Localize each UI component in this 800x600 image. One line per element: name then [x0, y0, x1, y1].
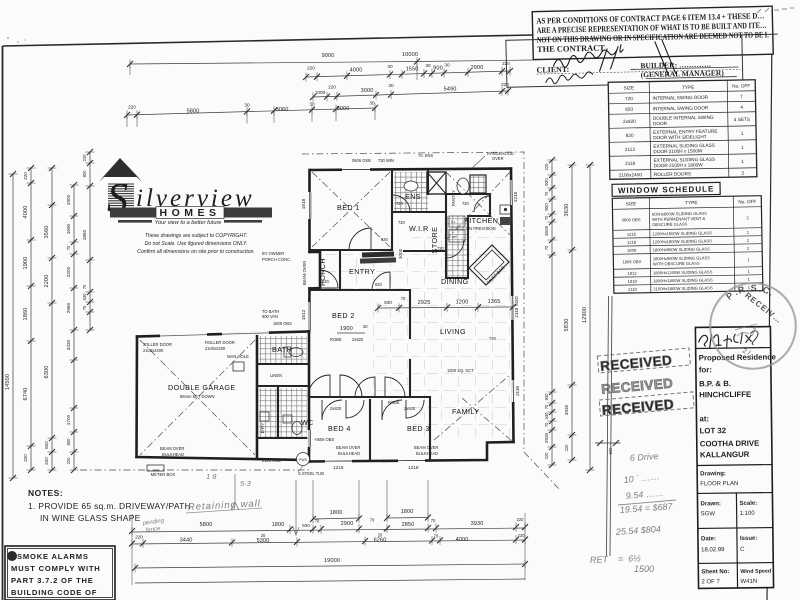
- svg-text:220: 220: [23, 172, 28, 180]
- svg-text:6 Drive: 6 Drive: [629, 451, 658, 463]
- svg-text:These drawings are subject to: These drawings are subject to COPYRIGHT.: [145, 233, 247, 239]
- svg-text:5830: 5830: [564, 319, 570, 332]
- svg-text:IN WINE GLASS SHAPE: IN WINE GLASS SHAPE: [40, 513, 141, 523]
- svg-text:KALLANGUR: KALLANGUR: [700, 450, 750, 460]
- svg-text:PORCH CONC.: PORCH CONC.: [262, 257, 291, 262]
- svg-text:720: 720: [489, 336, 497, 341]
- svg-text:2118: 2118: [515, 386, 520, 396]
- svg-text:930: 930: [302, 523, 310, 528]
- svg-text:BUILDING CODE OF: BUILDING CODE OF: [11, 588, 97, 597]
- svg-text:19000: 19000: [324, 558, 340, 564]
- svg-text:BULKHEAD: BULKHEAD: [338, 451, 360, 456]
- svg-text:30: 30: [388, 83, 394, 88]
- svg-text:1:100: 1:100: [740, 511, 756, 517]
- svg-text:5300: 5300: [257, 538, 270, 544]
- svg-text:DOOR: DOOR: [653, 121, 668, 126]
- svg-text:70. ENS: 70. ENS: [418, 153, 434, 158]
- svg-text:1900: 1900: [66, 194, 71, 205]
- svg-text:BULKHEAD: BULKHEAD: [416, 451, 438, 456]
- svg-text:NOTES:: NOTES:: [28, 488, 63, 498]
- svg-text:PART 3.7.2 OF THE: PART 3.7.2 OF THE: [11, 576, 94, 585]
- svg-text:D'RY: D'RY: [260, 422, 265, 434]
- svg-text:7: 7: [740, 94, 743, 99]
- svg-text:5490: 5490: [444, 87, 457, 93]
- svg-text:Scale:: Scale:: [740, 501, 758, 507]
- svg-text:1600: 1600: [544, 225, 549, 236]
- svg-text:220: 220: [44, 457, 49, 465]
- svg-text:LOT 32: LOT 32: [700, 426, 727, 435]
- svg-text:METER BOX: METER BOX: [151, 472, 176, 477]
- svg-text:LIVING: LIVING: [440, 327, 466, 336]
- svg-text:RECEIVED: RECEIVED: [601, 397, 674, 418]
- svg-text:1860: 1860: [23, 308, 29, 321]
- svg-text:-0606 OBS: -0606 OBS: [314, 437, 335, 442]
- svg-text:900 VAN: 900 VAN: [262, 314, 278, 319]
- svg-text:820: 820: [626, 133, 634, 138]
- svg-text:2100x2400: 2100x2400: [143, 348, 164, 353]
- svg-text:1900: 1900: [23, 257, 29, 270]
- svg-text:220: 220: [544, 163, 549, 171]
- svg-text:DOOR 2100H x 1800W: DOOR 2100H x 1800W: [654, 162, 704, 168]
- svg-text:ENS: ENS: [405, 192, 421, 201]
- svg-text:TYPE: TYPE: [685, 200, 697, 205]
- svg-text:1: 1: [741, 159, 744, 164]
- svg-text:220: 220: [518, 533, 526, 538]
- svg-text:2115 SGD: 2115 SGD: [262, 458, 281, 463]
- svg-text:1809 OBS: 1809 OBS: [622, 259, 641, 264]
- svg-text:3930: 3930: [564, 404, 569, 415]
- svg-text:COOTHA DRIVE: COOTHA DRIVE: [700, 439, 760, 449]
- svg-text:BEAM OVER: BEAM OVER: [414, 445, 438, 450]
- svg-text:Do not Scale. Use figured dime: Do not Scale. Use figured dimensions ONL…: [145, 241, 248, 247]
- svg-text:ROLLER DOOR: ROLLER DOOR: [205, 340, 235, 345]
- svg-text:820: 820: [381, 237, 389, 242]
- svg-text:3330: 3330: [66, 339, 71, 350]
- svg-text:1000: 1000: [398, 248, 403, 259]
- svg-text:30: 30: [444, 63, 450, 68]
- svg-text:1818: 1818: [628, 279, 638, 284]
- svg-text:C: C: [740, 547, 745, 553]
- svg-text:BED 1: BED 1: [337, 203, 360, 212]
- svg-text:No. OFF: No. OFF: [732, 83, 750, 88]
- svg-text:1200: 1200: [456, 300, 469, 306]
- svg-text:MAN HOLE: MAN HOLE: [227, 354, 249, 359]
- svg-text:1809 OBS: 1809 OBS: [273, 321, 292, 326]
- svg-text:220: 220: [135, 535, 143, 540]
- svg-text:2200: 2200: [44, 275, 50, 288]
- svg-text:70: 70: [544, 404, 549, 409]
- svg-text:70: 70: [66, 245, 71, 250]
- svg-text:HOMES: HOMES: [159, 207, 220, 219]
- svg-text:70: 70: [370, 518, 375, 523]
- svg-text:W.I.R: W.I.R: [409, 224, 429, 233]
- svg-text:DINING: DINING: [441, 277, 469, 286]
- svg-text:2900: 2900: [341, 521, 354, 527]
- svg-text:900: 900: [433, 66, 443, 72]
- svg-text:1200Hx1500W SLIDING GLASS: 1200Hx1500W SLIDING GLASS: [652, 230, 712, 236]
- svg-text:1000: 1000: [315, 90, 326, 95]
- svg-text:1809: 1809: [627, 248, 637, 253]
- svg-text:BEAM OVER: BEAM OVER: [336, 445, 360, 450]
- svg-text:3440: 3440: [180, 538, 193, 544]
- svg-text:1365: 1365: [488, 299, 501, 305]
- svg-text:530: 530: [82, 293, 87, 301]
- svg-text:BEAM OVER: BEAM OVER: [302, 261, 307, 285]
- svg-text:70: 70: [544, 245, 549, 250]
- svg-text:DOOR 2100H x 1500W: DOOR 2100H x 1500W: [653, 148, 703, 154]
- svg-text:ROLLER DOORS: ROLLER DOORS: [654, 171, 691, 177]
- svg-text:2x820: 2x820: [352, 337, 364, 342]
- svg-text:1800: 1800: [330, 510, 343, 516]
- svg-text:Proposed Residence: Proposed Residence: [699, 352, 777, 362]
- svg-text:1700: 1700: [66, 414, 71, 425]
- svg-text:1215: 1215: [513, 191, 518, 202]
- svg-text:220: 220: [501, 82, 509, 87]
- svg-text:220: 220: [82, 154, 87, 162]
- svg-text:800: 800: [66, 438, 71, 446]
- svg-text:ROBE: ROBE: [330, 337, 342, 342]
- svg-text:70: 70: [544, 191, 549, 196]
- svg-text:Issue:: Issue:: [740, 536, 757, 542]
- svg-text:HINCHCLIFFE: HINCHCLIFFE: [699, 390, 751, 400]
- svg-text:SGW: SGW: [701, 511, 716, 517]
- svg-text:70: 70: [82, 284, 87, 289]
- svg-text:Confirm all dimensions on site: Confirm all dimensions on site prior to …: [137, 249, 255, 255]
- svg-text:BATH: BATH: [272, 345, 292, 354]
- svg-text:720: 720: [437, 246, 445, 251]
- svg-text:2118 SGD: 2118 SGD: [514, 296, 519, 318]
- svg-text:THE CONTRACT: THE CONTRACT: [537, 44, 605, 55]
- svg-text:Your view to a better future: Your view to a better future: [155, 220, 222, 226]
- svg-text:820: 820: [322, 279, 330, 284]
- svg-text:3000: 3000: [337, 106, 350, 112]
- svg-text:720: 720: [398, 220, 406, 225]
- svg-text:Drawn:: Drawn:: [701, 501, 721, 507]
- svg-text:5·3: 5·3: [240, 479, 252, 488]
- svg-text:DOUBLE GARAGE: DOUBLE GARAGE: [168, 383, 236, 392]
- svg-text:1218: 1218: [408, 465, 419, 470]
- svg-text:14500: 14500: [5, 374, 11, 390]
- svg-text:1550: 1550: [406, 67, 419, 73]
- svg-text:3930: 3930: [471, 521, 484, 527]
- svg-text:220: 220: [328, 85, 336, 90]
- svg-text:RECEIVED: RECEIVED: [600, 353, 673, 374]
- svg-text:INTERNAL SWING DOOR: INTERNAL SWING DOOR: [652, 95, 708, 101]
- svg-text:930: 930: [384, 300, 392, 305]
- svg-text:W41N: W41N: [740, 579, 757, 585]
- svg-text:30: 30: [363, 324, 368, 329]
- svg-text:2 OF 7: 2 OF 7: [701, 579, 720, 585]
- svg-text:6300: 6300: [44, 366, 50, 379]
- svg-text:2x820: 2x820: [330, 406, 342, 411]
- svg-text:2900: 2900: [471, 65, 484, 71]
- svg-text:70: 70: [544, 422, 549, 427]
- svg-text:220: 220: [23, 454, 28, 462]
- svg-text:3060: 3060: [276, 107, 289, 113]
- svg-text:5800: 5800: [200, 522, 213, 528]
- svg-text:1: 1: [741, 131, 744, 136]
- svg-text:30: 30: [309, 102, 315, 107]
- svg-text:1800: 1800: [401, 509, 414, 515]
- svg-text:at:: at:: [699, 414, 709, 423]
- svg-text:CLIENT:: CLIENT:: [536, 65, 569, 75]
- svg-text:19.54 = $687: 19.54 = $687: [619, 501, 673, 515]
- svg-text:MUST COMPLY WITH: MUST COMPLY WITH: [11, 564, 101, 573]
- svg-text:1218: 1218: [333, 465, 344, 470]
- svg-text:BY OWNER: BY OWNER: [262, 251, 284, 256]
- svg-text:1300 SQ. SCT: 1300 SQ. SCT: [447, 368, 474, 373]
- svg-text:220: 220: [564, 444, 569, 452]
- svg-text:Wind Speed: Wind Speed: [740, 569, 771, 575]
- svg-text:30: 30: [369, 101, 375, 106]
- svg-text:720: 720: [625, 96, 633, 101]
- svg-text:9.54 ……: 9.54 ……: [625, 488, 664, 501]
- svg-text:4 SETS: 4 SETS: [734, 117, 750, 122]
- svg-text:2930: 2930: [544, 432, 549, 443]
- svg-text:ENTRY: ENTRY: [349, 267, 375, 276]
- svg-text:ON PREVISION: ON PREVISION: [466, 226, 496, 231]
- svg-text:Date:: Date:: [701, 536, 716, 542]
- svg-text:70: 70: [401, 296, 406, 301]
- svg-text:220: 220: [307, 66, 315, 71]
- svg-text:30: 30: [244, 103, 250, 108]
- svg-text:S.STEEL TUB: S.STEEL TUB: [298, 471, 324, 476]
- svg-text:PANTRY: PANTRY: [451, 190, 456, 206]
- svg-text:KITCHEN: KITCHEN: [464, 216, 498, 225]
- svg-text:10 ´ ……: 10 ´ ……: [623, 471, 660, 485]
- svg-text:Drawing:: Drawing:: [700, 471, 726, 477]
- svg-text:1812: 1812: [627, 271, 637, 276]
- svg-text:820: 820: [625, 107, 633, 112]
- svg-text:fence: fence: [145, 526, 161, 534]
- svg-text:70: 70: [82, 305, 87, 310]
- svg-text:2118: 2118: [625, 161, 636, 166]
- svg-text:2960: 2960: [66, 302, 71, 313]
- svg-text:BED 2: BED 2: [332, 311, 355, 320]
- svg-text:2113: 2113: [625, 147, 636, 152]
- svg-text:2200: 2200: [66, 266, 71, 277]
- svg-text:730 WIN: 730 WIN: [378, 158, 394, 163]
- svg-text:86mm SET DOWN: 86mm SET DOWN: [180, 394, 215, 399]
- svg-text:220: 220: [517, 517, 525, 522]
- svg-text:BEAM OVER: BEAM OVER: [160, 446, 184, 451]
- svg-text:2100x2400: 2100x2400: [205, 346, 226, 351]
- svg-text:1590: 1590: [66, 223, 71, 234]
- svg-text:920: 920: [544, 178, 549, 186]
- svg-text:FAMILY: FAMILY: [452, 407, 479, 416]
- svg-text:B.P. & B.: B.P. & B.: [699, 379, 731, 388]
- svg-text:220: 220: [544, 452, 549, 460]
- svg-text:1. PROVIDE 65 sq.m. DRIVEWAY/P: 1. PROVIDE 65 sq.m. DRIVEWAY/PATH: [28, 501, 191, 511]
- svg-text:2925: 2925: [418, 300, 431, 306]
- svg-text:BULKHEAD: BULKHEAD: [162, 452, 184, 457]
- svg-text:BED 4: BED 4: [328, 424, 351, 433]
- svg-text:1500: 1500: [634, 564, 654, 574]
- svg-text:1860: 1860: [82, 229, 87, 240]
- svg-text:18.02.99: 18.02.99: [701, 547, 725, 553]
- svg-text:70: 70: [315, 519, 320, 524]
- svg-text:12900: 12900: [582, 307, 588, 323]
- svg-text:70: 70: [431, 518, 436, 523]
- svg-text:2: 2: [741, 170, 744, 175]
- svg-text:DOUBLE INTERNAL SWING: DOUBLE INTERNAL SWING: [653, 115, 714, 121]
- svg-text:600: 600: [44, 441, 49, 449]
- svg-text:WINDOW SCHEDULE: WINDOW SCHEDULE: [618, 185, 714, 196]
- svg-text:FLOOR PLAN: FLOOR PLAN: [700, 481, 738, 487]
- svg-text:900: 900: [544, 203, 549, 211]
- svg-text:No. OFF: No. OFF: [738, 199, 756, 204]
- svg-text:1818: 1818: [301, 198, 306, 209]
- svg-text:1200Hx1800W SLIDING GLASS: 1200Hx1800W SLIDING GLASS: [652, 238, 712, 244]
- svg-text:9000: 9000: [322, 53, 335, 59]
- svg-text:4000: 4000: [350, 68, 363, 74]
- svg-text:1218: 1218: [627, 240, 637, 245]
- svg-text:1800Hx1800W SLIDING GLASS: 1800Hx1800W SLIDING GLASS: [653, 277, 713, 283]
- svg-text:720: 720: [462, 201, 470, 206]
- svg-text:1800: 1800: [272, 522, 285, 528]
- svg-text:220: 220: [128, 105, 136, 110]
- svg-text:70: 70: [434, 534, 439, 539]
- svg-text:20: 20: [378, 533, 383, 538]
- svg-text:2118: 2118: [628, 287, 638, 292]
- svg-text:1: 1: [741, 145, 744, 150]
- svg-text:SIZE: SIZE: [624, 85, 635, 90]
- svg-text:PWS: PWS: [299, 458, 307, 462]
- svg-text:2x820: 2x820: [404, 406, 416, 411]
- svg-text:2850: 2850: [402, 522, 415, 528]
- svg-text:S: S: [751, 283, 757, 293]
- svg-text:TYPE: TYPE: [682, 85, 694, 90]
- svg-text:4: 4: [740, 105, 743, 110]
- svg-text:for:: for:: [699, 365, 712, 374]
- svg-text:INTERNAL SWING DOOR: INTERNAL SWING DOOR: [653, 105, 709, 111]
- svg-text:2100x2400: 2100x2400: [619, 172, 643, 177]
- svg-text:SMOKE ALARMS: SMOKE ALARMS: [17, 552, 89, 561]
- svg-text:10000: 10000: [402, 52, 418, 58]
- svg-text:1900: 1900: [340, 326, 353, 332]
- svg-text:SIZE: SIZE: [626, 201, 637, 206]
- svg-text:LINEN: LINEN: [270, 373, 282, 378]
- svg-text:ROBE: ROBE: [388, 400, 400, 405]
- svg-text:3560: 3560: [44, 226, 50, 239]
- svg-text:530: 530: [544, 412, 549, 420]
- svg-text:BED 3: BED 3: [407, 424, 430, 433]
- svg-text:JOLLER DOOR: JOLLER DOOR: [143, 342, 172, 347]
- svg-text:4000: 4000: [23, 206, 29, 219]
- svg-text:1812: 1812: [301, 309, 306, 320]
- svg-text:30: 30: [425, 63, 431, 68]
- svg-text:0606 OBS: 0606 OBS: [622, 217, 641, 222]
- svg-text:70: 70: [544, 215, 549, 220]
- svg-text:6260: 6260: [374, 538, 387, 544]
- svg-text:3630: 3630: [564, 204, 570, 217]
- svg-text:2100Hx1800W SLIDING GLASS: 2100Hx1800W SLIDING GLASS: [653, 285, 713, 291]
- svg-text:DOOR WITH SIDELIGHT: DOOR WITH SIDELIGHT: [653, 134, 707, 140]
- svg-text:1215: 1215: [627, 232, 637, 237]
- svg-text:WC: WC: [301, 418, 314, 427]
- svg-text:pending: pending: [141, 518, 165, 527]
- svg-text:OVER: OVER: [492, 156, 504, 161]
- svg-text:RECEIV…: RECEIV…: [743, 291, 784, 326]
- svg-text:0606 OSB: 0606 OSB: [352, 158, 371, 163]
- svg-text:20: 20: [261, 533, 266, 538]
- svg-text:6740: 6740: [23, 388, 29, 401]
- svg-text:30: 30: [387, 64, 393, 69]
- svg-text:220: 220: [66, 457, 71, 465]
- svg-text:930: 930: [544, 393, 549, 401]
- svg-text:2x820: 2x820: [623, 119, 636, 124]
- svg-text:5800: 5800: [187, 109, 200, 115]
- svg-text:1800Hx900W SLIDING GLASS: 1800Hx900W SLIDING GLASS: [653, 246, 710, 252]
- svg-text:WITH OBSCURE GLASS: WITH OBSCURE GLASS: [653, 261, 700, 267]
- svg-text:1 8: 1 8: [206, 472, 217, 481]
- svg-text:25.54 $804: 25.54 $804: [614, 524, 661, 537]
- svg-text:1800Hx1200W SLIDING GLASS: 1800Hx1200W SLIDING GLASS: [653, 269, 713, 275]
- svg-text:3000: 3000: [361, 88, 374, 94]
- svg-text:Sheet No:: Sheet No:: [701, 569, 729, 575]
- svg-text:OBSCURE GLASS: OBSCURE GLASS: [652, 221, 687, 227]
- svg-text:720: 720: [396, 201, 404, 206]
- svg-text:820: 820: [375, 282, 383, 287]
- svg-text:4000: 4000: [456, 537, 469, 543]
- svg-text:920: 920: [82, 170, 87, 178]
